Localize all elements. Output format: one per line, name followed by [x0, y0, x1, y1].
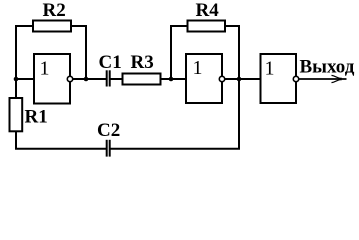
node gate2 output: [237, 77, 242, 82]
wire R4 right leg: [224, 26, 239, 79]
inverter gate 3: [261, 54, 297, 103]
resistor R1: [10, 98, 23, 131]
node gate2 input: [169, 77, 174, 82]
svg-text:R2: R2: [43, 0, 66, 21]
svg-text:R3: R3: [131, 52, 154, 73]
output arrow: [332, 75, 341, 82]
resistor R2: [33, 21, 71, 32]
svg-text:1: 1: [265, 58, 275, 80]
wire gate1 input: [16, 78, 34, 80]
bubble gate 1 output: [67, 76, 72, 81]
svg-text:C2: C2: [97, 120, 120, 141]
wire R2 left leg: [16, 26, 34, 79]
inverter gate 1: [34, 54, 70, 104]
wire output: [296, 78, 347, 80]
capacitor C2: [107, 140, 110, 157]
wire node to R1: [15, 79, 17, 98]
wire bottom rail right: [110, 148, 240, 150]
wire riser to bottom rail: [238, 79, 240, 149]
resistor R4: [188, 21, 226, 32]
wire R3 to gate2: [161, 78, 187, 80]
wire R2 right leg: [70, 26, 86, 79]
wire C1 to R3: [110, 78, 123, 80]
svg-text:Выход: Выход: [300, 57, 355, 78]
wire R1 to bottom rail: [16, 131, 107, 149]
node gate1 output: [84, 77, 89, 82]
inverter gate 2: [186, 54, 222, 103]
svg-text:R1: R1: [25, 107, 48, 128]
bubble gate 3 output: [293, 76, 298, 81]
wire gate1 output: [70, 78, 107, 80]
svg-text:1: 1: [40, 58, 50, 80]
wire R4 left leg: [171, 26, 188, 79]
resistor R3: [123, 74, 161, 85]
bubble gate 2 output: [219, 76, 224, 81]
svg-text:1: 1: [193, 57, 203, 79]
capacitor C1: [107, 70, 110, 86]
node input gate1: [14, 77, 19, 82]
svg-text:R4: R4: [196, 0, 220, 21]
svg-text:C1: C1: [99, 52, 122, 73]
wire gate2 output: [222, 78, 261, 80]
